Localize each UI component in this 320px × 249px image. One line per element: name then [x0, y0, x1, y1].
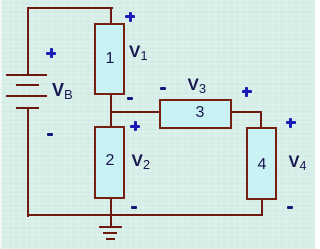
page left edge highlight — [0, 0, 2, 249]
ground: bar 2 — [103, 232, 117, 234]
wire: drop from top wire to box 1 top pin — [110, 7, 112, 25]
wire: bottom bus — [27, 214, 263, 216]
minus: V2 - (below box 2) — [131, 206, 137, 209]
wire: corner down to box 4 top — [260, 111, 262, 128]
wire: left vertical from top corner down to battery + plate — [27, 7, 29, 76]
wire: branch from node to box 3 left — [110, 111, 160, 113]
plus: battery + — [46, 48, 56, 58]
box 3 (element 3) — [159, 99, 232, 129]
label 4 — [255, 156, 269, 174]
battery VB: plate 1 (long, +) — [6, 74, 47, 76]
wire: top horizontal from battery to box 1 — [27, 7, 113, 9]
label 2 — [103, 152, 117, 170]
ground: stem below bus — [110, 215, 112, 227]
plus: V2 + (above box 2) — [130, 121, 140, 131]
box 1 (element 1) — [94, 23, 125, 95]
wire: left vertical from battery - plate down to bottom bus — [27, 107, 29, 217]
battery VB: plate 3 (long) — [6, 95, 47, 97]
wire: stem between box 1 and box 2 (node) — [110, 94, 112, 127]
label 3 — [193, 104, 207, 122]
battery VB: plate 4 (short, -) — [16, 107, 39, 109]
box 4 (element 4) — [246, 127, 277, 200]
minus: V3 - (left of V3) — [160, 87, 166, 90]
minus: V1 - (below box 1) — [127, 97, 133, 100]
wire: box 4 bottom stem to bus — [261, 199, 263, 215]
plus: V3 + (right of V3) — [242, 87, 252, 97]
label V4 — [289, 153, 307, 173]
wire: box 2 bottom stem to bus — [110, 198, 112, 215]
minus: V4 - (below right of box 4) — [287, 206, 293, 209]
ground: bar 1 — [99, 226, 122, 228]
box 2 (element 2) — [94, 126, 125, 199]
wire: from box 3 right to corner — [231, 111, 262, 113]
label V3 — [188, 75, 207, 96]
ground: bar 3 — [106, 238, 115, 241]
label VB — [52, 80, 73, 102]
plus: V4 + (above right of box 4) — [286, 118, 296, 128]
label V1 — [129, 42, 148, 63]
battery VB: plate 2 (short) — [16, 84, 39, 86]
plus: V1 + (above box 1) — [125, 12, 135, 22]
minus: battery - — [47, 133, 53, 136]
label 1 — [103, 50, 117, 68]
label V2 — [132, 151, 151, 172]
